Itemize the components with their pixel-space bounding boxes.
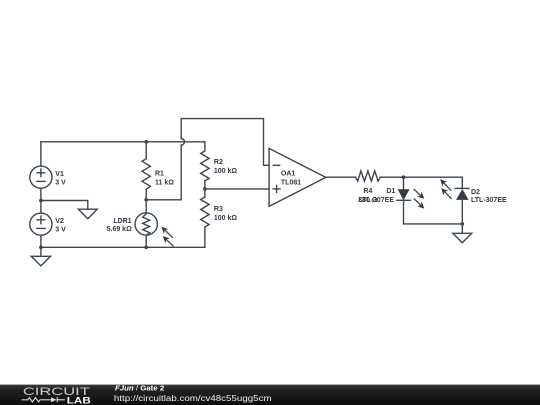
voltage source V1 — [30, 166, 52, 188]
wire bottom rail — [41, 246, 205, 248]
resistor R4 — [356, 171, 404, 181]
wire top rail — [41, 141, 205, 143]
wire R1 bottom to feedback loop (with hop over top rail) — [146, 119, 269, 200]
svg-text:3 V: 3 V — [55, 227, 66, 234]
svg-text:LTL-307EE: LTL-307EE — [471, 197, 507, 204]
svg-text:LAB: LAB — [67, 395, 91, 405]
node bottom rail / LDR1 — [144, 246, 148, 250]
node top rail / R1 junction — [144, 140, 148, 144]
D2 light arrow 2 — [441, 188, 451, 198]
op-amp OA1 — [269, 148, 326, 206]
svg-text:100 kΩ: 100 kΩ — [214, 168, 238, 175]
node R2/R3 divider — [203, 187, 207, 191]
node R1 bottom / LDR1 top — [144, 198, 148, 202]
svg-text:D1: D1 — [386, 188, 395, 195]
svg-text:3 V: 3 V — [55, 180, 66, 187]
svg-text:http://circuitlab.com/cv48c55u: http://circuitlab.com/cv48c55ugg5cm — [114, 393, 272, 403]
resistor R1 — [142, 142, 150, 200]
svg-text:LTL-307EE: LTL-307EE — [358, 197, 394, 204]
voltage source V2 — [30, 213, 52, 235]
node between V1 and V2 — [39, 199, 43, 203]
node op-amp output / D1 anode — [402, 175, 406, 179]
ground (bottom left) — [31, 247, 50, 266]
svg-text:R1: R1 — [155, 171, 164, 178]
LDR1 light arrow 2 — [163, 236, 173, 246]
wire V1 to V2 — [40, 188, 42, 213]
D1 light arrow 2 — [414, 199, 424, 209]
svg-text:TL081: TL081 — [281, 179, 301, 186]
node V2 bottom / ground — [39, 246, 43, 250]
resistor R3 — [201, 189, 209, 247]
svg-text:LDR1: LDR1 — [113, 218, 131, 225]
LDR1 light arrow 1 — [161, 227, 172, 238]
CircuitLab logo circuit doodle (resistor + diode) — [22, 397, 65, 402]
wire V2 bottom lead — [40, 235, 42, 247]
svg-text:100 kΩ: 100 kΩ — [214, 215, 238, 222]
svg-text:R2: R2 — [214, 159, 223, 166]
svg-text:5.69 kΩ: 5.69 kΩ — [107, 226, 132, 233]
svg-text:V1: V1 — [55, 171, 64, 178]
svg-text:FJun / Gate 2: FJun / Gate 2 — [115, 383, 164, 392]
LED D2 — [455, 188, 469, 224]
node cathode rail / ground — [461, 222, 465, 226]
D1 light arrow 1 — [414, 190, 424, 199]
svg-text:D2: D2 — [471, 189, 480, 196]
resistor R2 — [201, 142, 209, 189]
svg-text:V2: V2 — [55, 218, 64, 225]
wire divider to op-amp + input — [205, 188, 269, 190]
wire D1/D2 cathode rail — [404, 223, 463, 225]
photoresistor LDR1 — [135, 200, 157, 248]
svg-text:R4: R4 — [363, 188, 372, 195]
svg-text:OA1: OA1 — [281, 171, 296, 178]
ground (right) — [453, 224, 472, 243]
LED D1 — [397, 177, 410, 224]
wire output rail to D2 — [404, 177, 463, 188]
footer bar — [0, 385, 540, 405]
D2 light arrow 1 — [440, 179, 451, 190]
wire V1 top lead to top rail — [40, 142, 42, 166]
wire op-amp output to R4 — [326, 176, 356, 178]
wire mid node to ground stem — [41, 201, 88, 210]
svg-text:R3: R3 — [214, 206, 223, 213]
ground (middle) — [78, 209, 97, 219]
svg-text:11 kΩ: 11 kΩ — [155, 179, 174, 186]
